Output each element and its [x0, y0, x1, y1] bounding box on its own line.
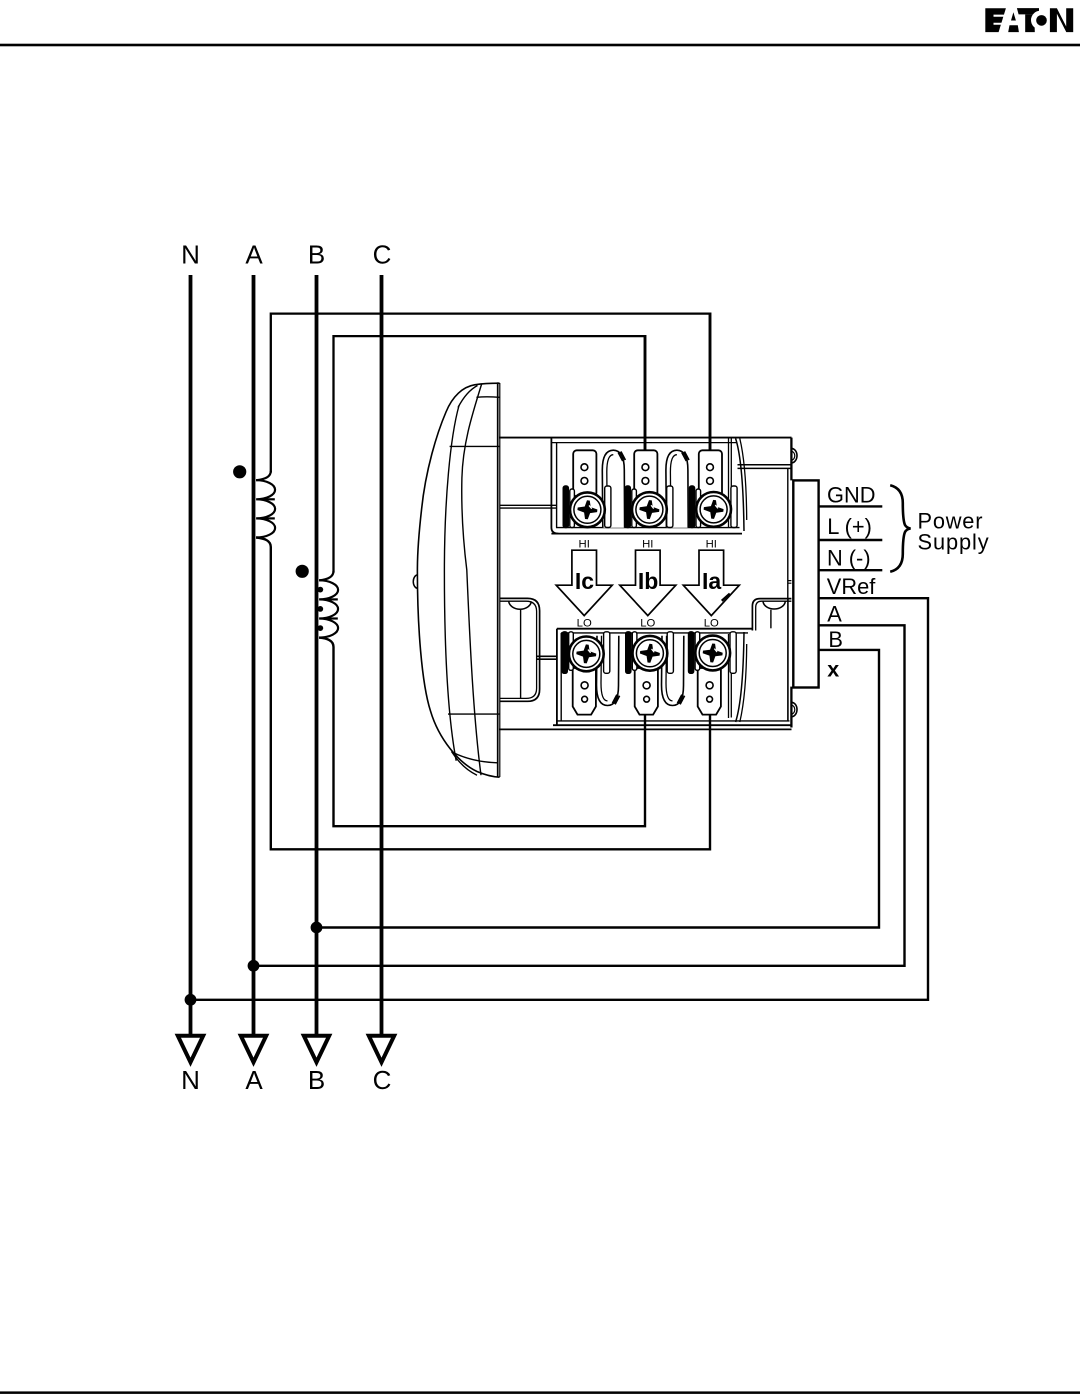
brace: [890, 485, 910, 572]
Ia HI screw: [696, 492, 731, 527]
CT B secondary loop bottom wire: [319, 638, 645, 827]
CT A polarity dot: [233, 465, 246, 478]
body bottom edge: [499, 728, 792, 730]
svg-text:LO: LO: [640, 618, 655, 630]
Ic LO screw: [569, 637, 604, 672]
svg-text:Ib: Ib: [638, 568, 658, 594]
leader dash on Ia head: [722, 594, 730, 601]
svg-text:L (+): L (+): [827, 514, 872, 539]
clamp plates top row: [563, 486, 737, 528]
body right edge mid strip: [787, 468, 789, 598]
body top edge: [499, 437, 792, 439]
Ic HI screw: [570, 492, 605, 527]
Eaton logo: [985, 8, 1073, 32]
phase line C: [380, 275, 384, 1038]
dome face contour: [462, 384, 482, 776]
svg-text:Ic: Ic: [575, 568, 594, 594]
junction dot N: [185, 994, 197, 1006]
Ib HI tab: [634, 450, 657, 496]
svg-text:Supply: Supply: [918, 529, 990, 554]
svg-text:A: A: [245, 1065, 263, 1095]
left strip stub upper: [500, 505, 557, 508]
Ia HI tab: [699, 450, 722, 496]
bottom block bottom edges: [557, 720, 790, 722]
body right edge lower: [790, 687, 792, 728]
svg-text:N: N: [181, 1065, 200, 1095]
bottom divider 2: [662, 636, 685, 706]
bottom terminal block top edge: [557, 628, 753, 630]
bottom block left wall: [556, 629, 558, 726]
top block bottom edge: [556, 527, 740, 529]
arrowhead N: [178, 1036, 203, 1063]
CT B polarity dot: [296, 565, 309, 578]
arrowhead C: [369, 1036, 394, 1063]
top divider 2: [666, 450, 689, 528]
connector block: [793, 480, 818, 687]
pin line N(-): [819, 569, 883, 571]
svg-text:VRef: VRef: [827, 574, 876, 599]
header rule: [0, 44, 1080, 47]
phase line B: [315, 275, 319, 1038]
body right edge upper: [790, 438, 792, 481]
svg-text:B: B: [308, 240, 325, 270]
top block step bottom edges: [738, 464, 792, 466]
CT A coil: [256, 471, 275, 538]
svg-text:N: N: [181, 240, 200, 270]
arrowhead B: [304, 1036, 329, 1063]
panel boss: [509, 601, 532, 609]
bottom block right arc: [736, 632, 744, 722]
bottom block right step: [752, 599, 791, 631]
Ic LO tab: [573, 668, 596, 715]
left strip stub lower: [536, 656, 557, 659]
svg-text:B: B: [828, 627, 843, 652]
junction dot B: [311, 922, 323, 934]
top block right arc: [736, 439, 744, 532]
dome bottom band: [452, 752, 478, 776]
svg-text:LO: LO: [577, 618, 592, 630]
arrow Ic: [556, 550, 612, 615]
svg-text:C: C: [373, 240, 392, 270]
pin line L(+): [819, 539, 883, 541]
junction dot A: [248, 960, 260, 972]
body right notch: [788, 581, 792, 584]
svg-text:HI: HI: [642, 538, 653, 550]
phase line labels top: [181, 240, 391, 270]
B wire to line B: [317, 650, 880, 928]
dome left nub: [413, 575, 418, 589]
svg-text:Ia: Ia: [702, 568, 721, 594]
meter dome outer silhouette: [417, 383, 499, 777]
left mounting panel: [500, 598, 540, 701]
svg-text:GND: GND: [827, 482, 875, 507]
phase line N: [189, 275, 193, 1038]
svg-text:B: B: [308, 1065, 325, 1095]
CT A secondary loop top wire: [271, 314, 710, 473]
clamp plates bottom row: [562, 632, 736, 674]
Ib LO tab: [635, 668, 658, 715]
CT A secondary loop bottom wire: [256, 538, 710, 850]
dome top band: [458, 386, 478, 408]
top terminal block left wall: [551, 438, 558, 534]
bottom step boss: [763, 602, 785, 610]
top divider 1: [602, 450, 625, 528]
svg-text:LO: LO: [704, 618, 719, 630]
dome inner contour: [444, 406, 459, 761]
CT B secondary loop top wire: [334, 336, 646, 572]
top block inner right verticals: [729, 438, 732, 528]
Ib HI screw: [632, 492, 667, 527]
VRef wire to line N: [191, 598, 929, 1000]
bottom right nub screw: [791, 702, 797, 717]
Ic HI tab: [573, 450, 596, 496]
phase line labels bottom: [181, 1065, 391, 1095]
svg-text:A: A: [827, 602, 842, 627]
svg-text:C: C: [373, 1065, 392, 1095]
svg-text:HI: HI: [706, 538, 717, 550]
bottom divider 1: [597, 636, 620, 706]
phase line A: [252, 275, 256, 1038]
svg-text:N (-): N (-): [827, 546, 871, 571]
Ia LO screw: [695, 636, 730, 671]
Ib LO screw: [633, 636, 668, 671]
footer rule: [0, 1391, 1080, 1394]
svg-text:A: A: [245, 240, 263, 270]
Ia LO tab: [698, 668, 721, 715]
arrow Ia: [683, 550, 739, 615]
CT B coil: [319, 571, 338, 638]
arrowhead A: [241, 1036, 266, 1063]
top right nub screw: [791, 448, 797, 463]
dome bottom horizontal: [448, 713, 500, 715]
dome right edge: [497, 382, 499, 777]
wire drop to Ib HI terminal: [644, 335, 647, 451]
wire drop to Ia HI terminal: [709, 312, 712, 450]
svg-text:HI: HI: [579, 538, 590, 550]
arrow Ib: [620, 550, 676, 615]
pin line GND: [819, 505, 883, 507]
dome top horizontal: [450, 445, 500, 447]
svg-text:x: x: [827, 657, 839, 681]
pin labels: [827, 482, 876, 681]
bottom block right edge: [787, 599, 789, 721]
bottom block inner right verticals: [729, 634, 732, 718]
A wire to line A: [254, 625, 905, 966]
top block inner top line: [551, 442, 737, 444]
